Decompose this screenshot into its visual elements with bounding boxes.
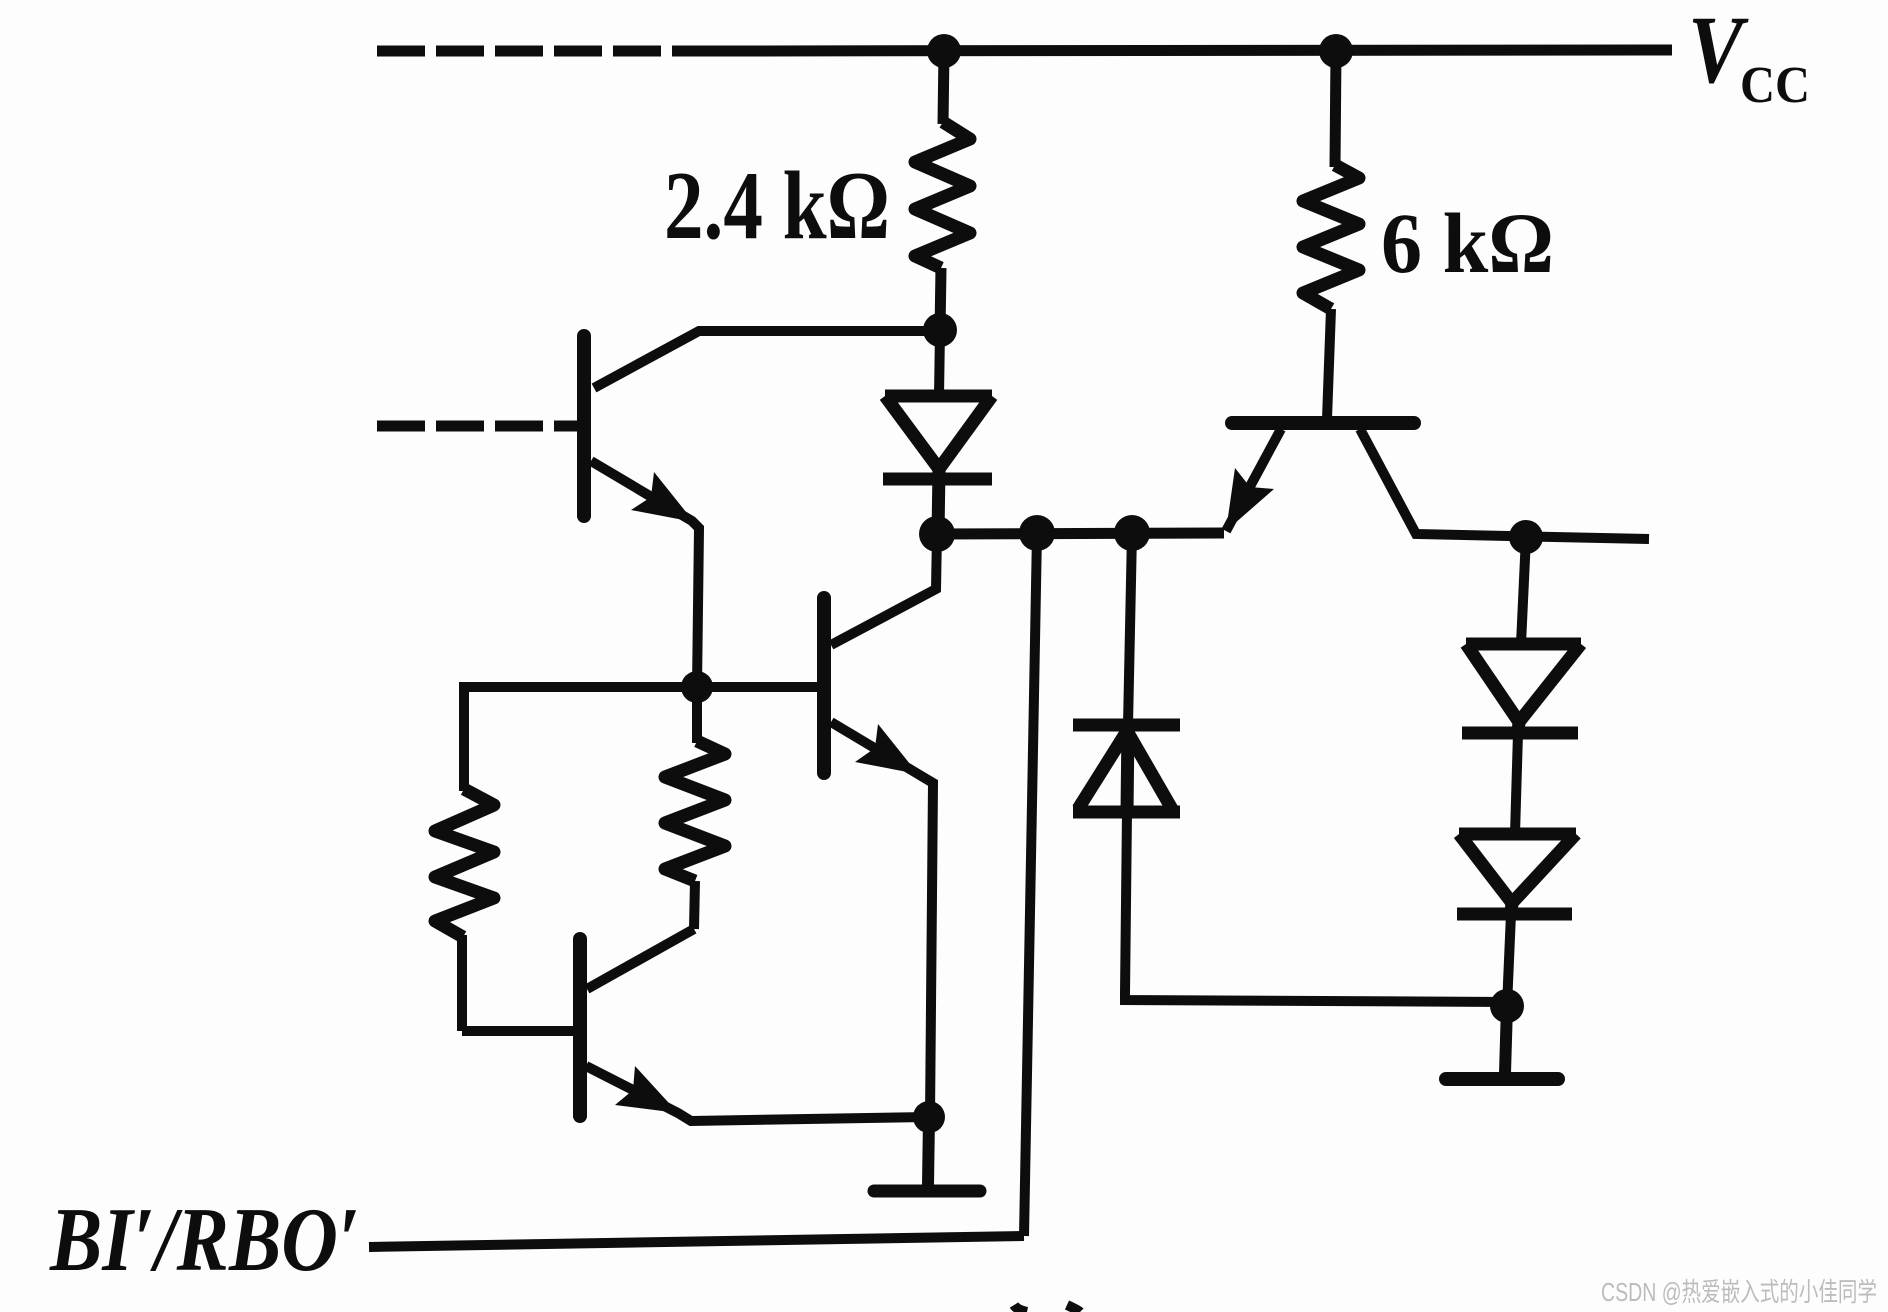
wire: D3-D4 link	[1515, 733, 1518, 834]
svg-text:BI′/RBO′: BI′/RBO′	[49, 1189, 360, 1290]
wire: Q4 base wire from R3	[462, 1026, 574, 1036]
node: dot at D2 branch	[1114, 515, 1150, 551]
svg-text:CSDN @热爱嵌入式的小佳同学: CSDN @热爱嵌入式的小佳同学	[1601, 1277, 1877, 1307]
diode D4	[1457, 834, 1576, 914]
ground (right)	[1446, 1006, 1558, 1079]
resistor 2.4 kohm	[915, 122, 970, 268]
diode D1	[883, 396, 992, 534]
wire: VCC to 6k resistor top lead	[1335, 51, 1336, 167]
transistor Q4 base bar	[573, 939, 587, 1116]
diode D1 top lead	[939, 330, 940, 396]
wire: VCC rail dashed segment	[377, 46, 706, 57]
wire: VCC rail solid segment	[703, 50, 1672, 51]
transistor Q3 collector	[1360, 429, 1649, 539]
transistor Q1 emitter with arrow	[591, 461, 699, 687]
wire: Q4 collector diagonal to R4	[587, 929, 694, 989]
transistor Q1 base bar	[577, 336, 591, 516]
transistor Q2 emitter with arrow	[831, 722, 933, 1117]
caption parenthesis marks at bottom	[1014, 1305, 1080, 1312]
resistor 6 kohm	[1303, 165, 1359, 309]
label 6 kohm	[1381, 195, 1554, 291]
node: dot at BI riser	[1019, 515, 1055, 551]
wire: D2 anode down and right to chain bottom	[1125, 812, 1507, 1002]
node: emitter junction dot	[913, 1101, 945, 1133]
wire: Q1 base dashed input	[377, 421, 578, 432]
wire: chain riser	[1521, 537, 1526, 644]
wire: node to Q2 collector	[831, 534, 937, 645]
svg-text:2.4 kΩ: 2.4 kΩ	[664, 152, 890, 260]
transistor Q4 emitter with arrow	[586, 1066, 929, 1121]
resistor R4 right parallel	[665, 687, 725, 929]
node: base junction dot Q2/R3/R4	[681, 671, 713, 703]
wire: Q1 collector to 2.4k node	[594, 331, 940, 388]
transistor Q3 base bar	[1232, 416, 1414, 430]
label VCC	[1688, 0, 1810, 114]
label 2.4 kohm	[664, 152, 890, 260]
wire: node row horizontal	[937, 533, 1224, 534]
diode D2 pointing up	[1073, 725, 1180, 812]
svg-text:6 kΩ: 6 kΩ	[1381, 195, 1554, 291]
node: VCC junction dot at 6k tap	[1319, 34, 1353, 68]
wire: BI/RBO horizontal	[369, 1236, 1024, 1247]
wire: VCC to 2.4k resistor top lead	[943, 51, 944, 124]
node: chain bottom dot	[1490, 989, 1524, 1023]
node: collector junction dot	[1509, 520, 1543, 554]
transistor Q3 emitter with arrow	[1226, 429, 1281, 531]
wire: D2 branch drop	[1128, 533, 1132, 725]
label BI'/RBO'	[49, 1189, 360, 1290]
wire: 2.4k bottom lead to node	[940, 268, 941, 331]
wire: Q2 base wire	[464, 682, 818, 692]
diode D3	[1462, 644, 1581, 733]
resistor R3 left parallel	[435, 682, 494, 1031]
wire: 6k bottom lead to Q3 base	[1327, 309, 1331, 419]
transistor Q2 base bar	[817, 598, 831, 773]
wire: D4 to ground node	[1507, 914, 1511, 1006]
wire: BI riser vertical	[1024, 533, 1037, 1236]
node: junction dot 2.4k / D1 / Q1 collector	[923, 313, 957, 347]
ground (center)	[874, 1117, 980, 1191]
svg-text:CC: CC	[1740, 57, 1810, 114]
node: dot under D1	[919, 516, 955, 552]
node: VCC junction dot at 2.4k tap	[927, 34, 961, 68]
